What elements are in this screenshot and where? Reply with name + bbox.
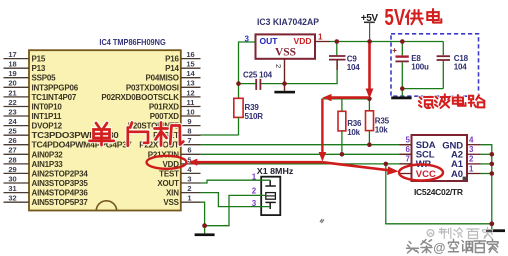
svg-text:AIN2STOP2P34: AIN2STOP2P34 [32, 169, 89, 178]
svg-text:DVOP12: DVOP12 [32, 122, 63, 131]
svg-text:R35: R35 [375, 117, 390, 126]
svg-text:IC4 TMP86FH09NG: IC4 TMP86FH09NG [99, 37, 166, 47]
svg-text:2: 2 [274, 64, 283, 68]
svg-text:7: 7 [406, 155, 411, 164]
svg-text:15: 15 [186, 60, 194, 69]
svg-text:30: 30 [8, 174, 16, 183]
svg-text:22: 22 [8, 98, 16, 107]
svg-text:+: + [392, 46, 397, 55]
svg-text:25: 25 [8, 127, 16, 136]
svg-text:6: 6 [406, 145, 411, 154]
svg-text:2: 2 [252, 187, 257, 196]
svg-text:6: 6 [187, 146, 191, 155]
svg-text:100u: 100u [411, 63, 429, 72]
svg-text:AIN0P32: AIN0P32 [32, 150, 64, 159]
svg-text:P01RXD: P01RXD [149, 103, 179, 112]
svg-text:19: 19 [8, 69, 16, 78]
svg-text:16: 16 [186, 50, 194, 59]
svg-text:3: 3 [187, 174, 191, 183]
svg-text:21: 21 [8, 88, 16, 97]
svg-text:P02RXD0BOOTSCLK: P02RXD0BOOTSCLK [101, 93, 179, 102]
svg-text:8: 8 [187, 127, 191, 136]
svg-text:5V: 5V [384, 4, 405, 30]
svg-text:12: 12 [186, 88, 194, 97]
svg-text:VSS: VSS [275, 47, 296, 59]
svg-text:P00TXD: P00TXD [150, 112, 179, 121]
svg-text:104: 104 [347, 63, 360, 72]
svg-text:10k: 10k [375, 126, 388, 135]
svg-text:IC524C02/TR: IC524C02/TR [414, 187, 463, 197]
svg-text:P04MISO: P04MISO [146, 74, 179, 83]
svg-text:TEST: TEST [159, 169, 179, 178]
svg-text:OUT: OUT [260, 36, 279, 46]
svg-text:104: 104 [454, 63, 467, 72]
svg-text:10k: 10k [347, 128, 360, 137]
svg-text:P03TXD0MOSI: P03TXD0MOSI [126, 83, 179, 92]
svg-text:9: 9 [187, 117, 191, 126]
svg-text:P14: P14 [165, 64, 179, 73]
svg-text:R36: R36 [347, 119, 362, 128]
svg-text:2: 2 [469, 155, 474, 164]
svg-text:3: 3 [469, 145, 474, 154]
svg-text:IC3 KIA7042AP: IC3 KIA7042AP [257, 17, 319, 27]
svg-text:1: 1 [318, 33, 323, 42]
svg-text:13: 13 [186, 79, 194, 88]
svg-text:P13: P13 [32, 64, 46, 73]
svg-text:20: 20 [8, 79, 16, 88]
svg-text:TC4PDO4PWM4PPG4P37: TC4PDO4PWM4PPG4P37 [32, 141, 133, 150]
svg-text:XIN: XIN [166, 189, 179, 198]
svg-text:AIN5STOP5P37: AIN5STOP5P37 [32, 198, 89, 207]
svg-text:4: 4 [469, 136, 474, 145]
svg-text:AIN3STOP3P35: AIN3STOP3P35 [32, 179, 89, 188]
svg-text:A0: A0 [451, 169, 463, 180]
svg-text:24: 24 [8, 117, 17, 126]
svg-text:26: 26 [8, 136, 16, 145]
svg-text:XOUT: XOUT [157, 179, 179, 188]
svg-text:@: @ [433, 241, 445, 255]
svg-text:23: 23 [8, 107, 16, 116]
svg-text:2: 2 [187, 184, 191, 193]
svg-text:1: 1 [187, 194, 191, 203]
svg-text:17: 17 [8, 50, 16, 59]
svg-text:5: 5 [406, 136, 411, 145]
svg-text:7: 7 [187, 136, 191, 145]
svg-text:32: 32 [8, 194, 16, 203]
svg-text:TC1INT4P07: TC1INT4P07 [32, 93, 77, 102]
svg-text:510R: 510R [245, 112, 264, 121]
svg-text:INT1P11: INT1P11 [32, 112, 62, 121]
svg-text:VDD: VDD [294, 36, 312, 46]
svg-text:3: 3 [252, 199, 257, 208]
svg-text:AIN4STOP4P36: AIN4STOP4P36 [32, 189, 89, 198]
svg-text:1: 1 [469, 164, 474, 173]
svg-text:VSS: VSS [163, 198, 179, 207]
svg-text:1: 1 [252, 173, 257, 182]
svg-text:SSP05: SSP05 [32, 74, 57, 83]
svg-text:10: 10 [186, 107, 194, 116]
svg-text:C25 104: C25 104 [243, 71, 273, 80]
svg-text:INT0P10: INT0P10 [32, 103, 63, 112]
svg-text:INT3PPGP06: INT3PPGP06 [32, 83, 79, 92]
svg-text:R39: R39 [245, 103, 260, 112]
svg-text:AIN1P33: AIN1P33 [32, 160, 64, 169]
svg-text:11: 11 [187, 98, 195, 107]
svg-text:14: 14 [186, 69, 195, 78]
svg-text:27: 27 [8, 146, 16, 155]
svg-text:P15: P15 [32, 55, 46, 64]
svg-text:P16: P16 [165, 55, 179, 64]
svg-text:31: 31 [8, 184, 16, 193]
svg-text:29: 29 [8, 165, 16, 174]
svg-text:28: 28 [8, 155, 16, 164]
svg-text:X1 8MHz: X1 8MHz [257, 167, 294, 176]
svg-text:18: 18 [8, 60, 16, 69]
